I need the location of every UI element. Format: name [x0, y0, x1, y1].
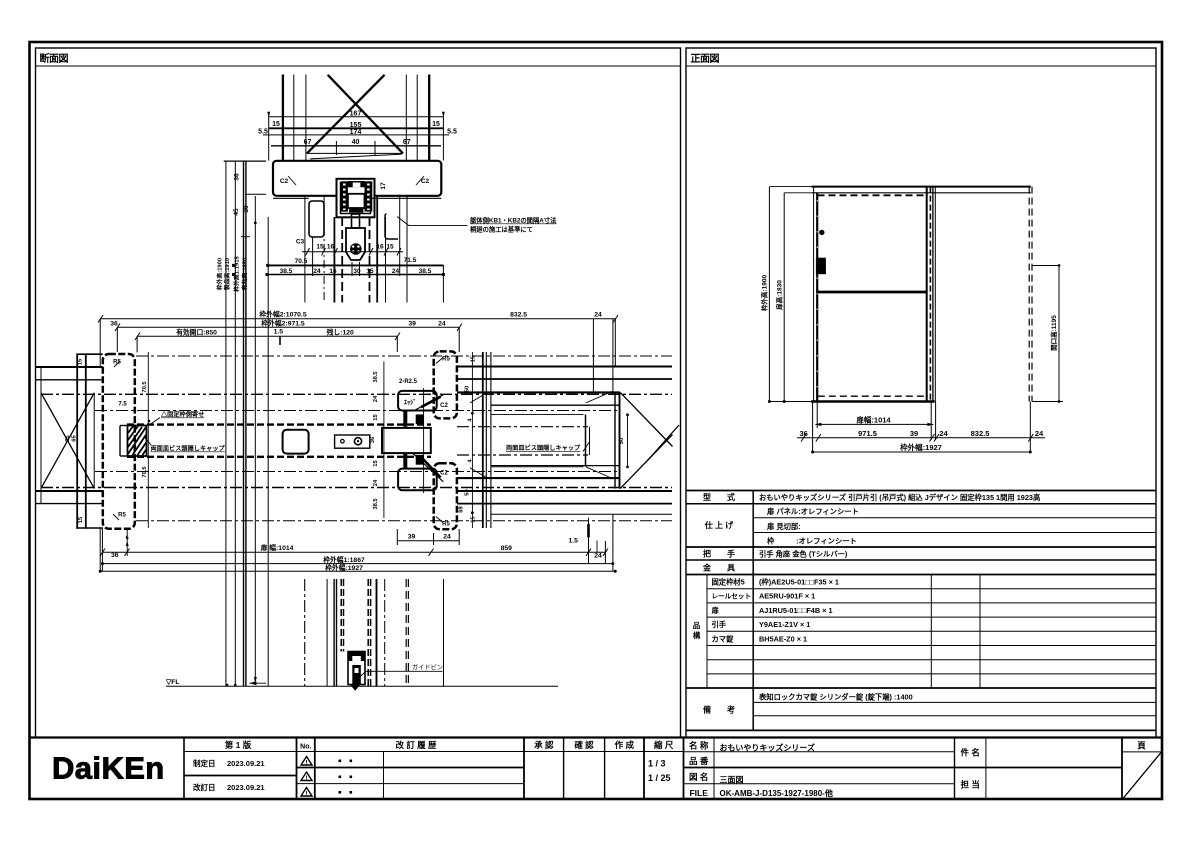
svg-text:両面皿ビス頭隠しキャップ: 両面皿ビス頭隠しキャップ — [506, 444, 581, 452]
svg-text:36: 36 — [110, 320, 118, 327]
door edge stile — [382, 428, 431, 453]
latch post lower — [434, 463, 457, 529]
svg-text:39: 39 — [408, 320, 416, 327]
jamb pocket hatch — [128, 426, 147, 457]
svg-text:AJ1RU5-01□□F4B × 1: AJ1RU5-01□□F4B × 1 — [759, 606, 833, 615]
svg-text:改 訂 履 歴: 改 訂 履 歴 — [395, 740, 437, 750]
svg-text:30: 30 — [353, 268, 361, 275]
svg-text:確 認: 確 認 — [573, 740, 594, 750]
svg-text:174: 174 — [350, 129, 362, 136]
svg-text:15: 15 — [373, 460, 379, 467]
svg-text:36: 36 — [370, 436, 376, 443]
rail slash marks — [470, 392, 487, 403]
svg-text:開口高:1195: 開口高:1195 — [1049, 315, 1058, 351]
svg-text:16: 16 — [329, 268, 337, 275]
left panel frame — [36, 48, 681, 738]
svg-text:ガイドピン: ガイドピン — [412, 664, 443, 672]
door bottom line — [811, 400, 935, 402]
door leaf bottom edge — [127, 456, 431, 458]
pocket rail lower — [457, 477, 620, 479]
svg-text:67: 67 — [403, 139, 411, 146]
kama hook upper bar — [403, 411, 407, 427]
hidden door end — [585, 415, 587, 467]
right panel frame — [686, 48, 1156, 738]
svg-text:15: 15 — [316, 244, 324, 251]
svg-text:品: 品 — [693, 621, 701, 630]
svg-text:扉 パネル:オレフィンシート: 扉 パネル:オレフィンシート — [767, 507, 859, 516]
jamb pocket inner lines — [120, 425, 128, 427]
svg-text:16: 16 — [327, 244, 335, 251]
svg-text:△固定枠側寄せ: △固定枠側寄せ — [160, 411, 204, 419]
bottom line extension to dims — [769, 401, 811, 403]
hanger roller ladder right — [365, 181, 373, 211]
brace chord — [307, 152, 403, 154]
svg-text:39: 39 — [910, 429, 918, 438]
svg-text:枠外高:1900: 枠外高:1900 — [216, 258, 224, 290]
door left stile thick line — [816, 193, 818, 402]
svg-text:15: 15 — [471, 355, 477, 362]
svg-text:おもいやりキッズシリーズ: おもいやりキッズシリーズ — [720, 743, 815, 753]
svg-text:24: 24 — [392, 268, 400, 275]
left stud pair — [76, 354, 78, 529]
svg-text:5.5: 5.5 — [447, 129, 457, 136]
bottom extension lines — [812, 402, 814, 453]
dim line D 1014 — [102, 551, 605, 553]
svg-text:担 当: 担 当 — [961, 780, 980, 790]
front view dimension texts — [760, 275, 1059, 452]
svg-text:24: 24 — [443, 534, 451, 541]
svg-text:15: 15 — [386, 244, 394, 251]
svg-text:24: 24 — [373, 479, 379, 486]
title block top line — [30, 736, 1163, 738]
left X brace — [41, 393, 94, 489]
svg-text:36: 36 — [111, 552, 119, 559]
pin base mark — [350, 685, 361, 691]
svg-text:70.5: 70.5 — [142, 466, 148, 478]
warning triangles — [301, 757, 312, 797]
bolt shaft — [352, 214, 360, 228]
kama hook housing lower — [398, 469, 437, 491]
dim line 174 — [263, 134, 449, 136]
annotation texts plan — [151, 399, 582, 453]
frame post line — [932, 187, 934, 402]
svg-text:38.5: 38.5 — [280, 268, 293, 275]
hanger roller ladder left — [341, 181, 348, 211]
svg-text:頁: 頁 — [1137, 741, 1146, 751]
svg-text:1.5: 1.5 — [274, 328, 284, 335]
bottom ext verticals — [101, 528, 103, 571]
right wall lines — [457, 365, 672, 367]
svg-text:引手 角座 金色 (Tシルバー): 引手 角座 金色 (Tシルバー) — [759, 550, 848, 559]
svg-text:!: ! — [306, 775, 308, 782]
svg-text:1.5: 1.5 — [568, 538, 578, 545]
svg-text:C2: C2 — [421, 178, 430, 185]
svg-text:2023.09.21: 2023.09.21 — [227, 783, 265, 792]
left panel header line — [36, 65, 681, 67]
svg-text:70.5: 70.5 — [142, 381, 148, 393]
svg-text:50: 50 — [465, 489, 471, 495]
right X break — [620, 392, 672, 446]
svg-text:扉高:1830: 扉高:1830 — [774, 280, 783, 310]
svg-text:R5: R5 — [113, 360, 121, 366]
svg-text:扉幅:1014: 扉幅:1014 — [855, 415, 891, 425]
svg-text:38.5: 38.5 — [373, 371, 379, 383]
svg-text:両面皿ビス頭隠しキャップ: 両面皿ビス頭隠しキャップ — [151, 445, 226, 453]
left dim line 1900 — [768, 187, 770, 402]
svg-text:躯体側KB1・KB2の間隔A寸法: 躯体側KB1・KB2の間隔A寸法 — [469, 216, 557, 225]
svg-text:65: 65 — [72, 435, 78, 442]
rail lower line — [811, 192, 1031, 194]
dashdot centerline 2 — [41, 393, 672, 395]
door top rail line — [811, 186, 1031, 188]
dim line C 850 — [137, 335, 397, 337]
svg-text:枠外幅1:1867: 枠外幅1:1867 — [322, 555, 365, 564]
svg-text:構: 構 — [693, 630, 701, 640]
leader to note — [397, 217, 468, 226]
svg-text:DaiKEn: DaiKEn — [52, 750, 165, 785]
door left stile thin line — [813, 187, 815, 402]
plan R5 C2 labels — [113, 357, 450, 528]
dim 6 tick — [126, 528, 128, 556]
dim line 155 — [269, 127, 444, 129]
latch dim verticals — [383, 362, 385, 519]
svg-text:2023.09.21: 2023.09.21 — [227, 759, 265, 768]
door right stile thick — [926, 187, 928, 402]
frame post outer thin — [934, 187, 936, 402]
svg-text:C2: C2 — [440, 403, 448, 409]
svg-text:6: 6 — [126, 536, 129, 542]
svg-text:24: 24 — [373, 395, 379, 402]
svg-text:71.5: 71.5 — [404, 257, 417, 264]
svg-text:971.5: 971.5 — [858, 429, 877, 438]
dashdot centerline 5 — [41, 487, 672, 489]
svg-text:67: 67 — [304, 139, 312, 146]
dim line tobira 1014 — [815, 423, 933, 425]
svg-text:7.5: 7.5 — [118, 402, 127, 408]
svg-text:扉 幅:1014: 扉 幅:1014 — [261, 543, 294, 552]
svg-text:▽FL: ▽FL — [165, 679, 180, 686]
svg-text:C2: C2 — [440, 471, 448, 477]
svg-text:C2: C2 — [280, 178, 289, 185]
svg-text:固定枠材5: 固定枠材5 — [712, 578, 745, 587]
latch centerline — [423, 388, 425, 493]
dim line lower — [267, 274, 443, 276]
svg-text:36: 36 — [800, 429, 808, 438]
frame post dotted line — [929, 187, 931, 402]
dim line row2 — [797, 437, 1045, 439]
svg-text:38.5: 38.5 — [419, 268, 432, 275]
bracket C3 left — [309, 201, 324, 237]
dashdot centerline 3 — [95, 410, 620, 412]
head frame lower flange lines — [273, 197, 309, 199]
right dim 1195 vertical — [1058, 266, 1060, 402]
svg-text:C3: C3 — [296, 239, 305, 246]
svg-text:枠 :オレフィンシート: 枠 :オレフィンシート — [766, 536, 857, 545]
svg-text:70.5: 70.5 — [295, 258, 308, 265]
svg-text:有効高:1850: 有効高:1850 — [241, 258, 249, 290]
dim line main — [267, 264, 443, 266]
svg-text:断面図: 断面図 — [40, 52, 69, 65]
1.5 tick — [596, 541, 598, 553]
svg-text:69: 69 — [459, 506, 465, 513]
svg-text:832.5: 832.5 — [971, 429, 990, 438]
svg-text:45: 45 — [233, 208, 240, 216]
svg-text:承 認: 承 認 — [534, 740, 554, 750]
left wall lines — [36, 366, 103, 368]
svg-text:38.5: 38.5 — [373, 498, 379, 510]
door bottom hidden dashed — [818, 395, 928, 397]
svg-text:24: 24 — [1035, 429, 1044, 438]
left jamb frame — [103, 354, 135, 529]
head frame body — [273, 161, 441, 196]
svg-text:型 式: 型 式 — [703, 492, 735, 502]
svg-text:縮 尺: 縮 尺 — [654, 740, 674, 750]
insulation slant — [310, 154, 402, 159]
svg-text:15: 15 — [471, 516, 477, 523]
kama hook housing upper — [398, 391, 437, 411]
dashdot centerline 4 — [95, 471, 620, 473]
wheel housing — [346, 228, 365, 260]
C2 corner marks — [288, 176, 296, 185]
pocket rail upper — [457, 391, 620, 393]
svg-text:把 手: 把 手 — [703, 549, 735, 559]
svg-text:枠外幅2:1070.5: 枠外幅2:1070.5 — [258, 309, 306, 318]
rotated height chain labels — [216, 256, 249, 292]
latch post upper — [434, 351, 457, 418]
revision dots — [339, 760, 353, 794]
svg-text:桐廻の施工は基準にて: 桐廻の施工は基準にて — [470, 225, 533, 234]
svg-text:24: 24 — [438, 320, 446, 327]
svg-text:40: 40 — [352, 139, 360, 146]
spec table top — [686, 490, 1156, 492]
svg-text:2-R2.5: 2-R2.5 — [399, 379, 418, 385]
svg-text:15: 15 — [366, 268, 374, 275]
door leaf top edge — [127, 423, 431, 425]
svg-text:95: 95 — [65, 435, 71, 442]
mullion verticals — [471, 352, 473, 528]
opening dashed centerline right — [1028, 187, 1030, 402]
svg-text:15: 15 — [78, 516, 84, 523]
svg-text:BH5AE-Z0 × 1: BH5AE-Z0 × 1 — [759, 634, 807, 643]
svg-text:R5: R5 — [118, 513, 126, 519]
svg-text:AE5RU-901F × 1: AE5RU-901F × 1 — [759, 592, 815, 601]
door handle cutout — [283, 430, 309, 454]
svg-text:24: 24 — [939, 429, 948, 438]
svg-text:15: 15 — [78, 358, 84, 365]
svg-text:36: 36 — [234, 173, 241, 181]
svg-text:表知ロックカマ錠 シリンダー錠 (錠下端) :1400: 表知ロックカマ錠 シリンダー錠 (錠下端) :1400 — [758, 692, 913, 701]
height dim long verticals — [225, 161, 227, 687]
svg-text:50: 50 — [465, 386, 471, 392]
kama hook lower bar — [403, 453, 407, 469]
svg-text:FILE: FILE — [689, 788, 708, 798]
page diagonal — [1123, 753, 1161, 799]
annotation leaders — [150, 418, 160, 425]
dim line E 1867 — [102, 563, 612, 565]
svg-text:制定日: 制定日 — [193, 758, 216, 768]
dim line B 971.5 — [117, 326, 459, 328]
dim A/B/C extension verticals — [99, 319, 101, 367]
door left stile dot pattern — [816, 200, 818, 398]
svg-text:(枠)AE2U5-01□□F35 × 1: (枠)AE2U5-01□□F35 × 1 — [759, 578, 839, 587]
plan labels rotated left — [65, 355, 625, 523]
svg-text:17: 17 — [380, 182, 387, 190]
right break verticals — [614, 392, 616, 488]
dim line 167 — [269, 116, 444, 118]
svg-text:金 具: 金 具 — [702, 563, 735, 573]
svg-text:16: 16 — [376, 244, 384, 251]
svg-text:レールセット: レールセット — [712, 593, 752, 601]
svg-text:R5: R5 — [442, 522, 450, 528]
svg-text:1 / 25: 1 / 25 — [648, 773, 671, 783]
hanger white slots — [343, 184, 346, 211]
guide pin leader — [365, 670, 443, 672]
hanger bottom dark — [349, 208, 363, 213]
svg-text:!: ! — [306, 790, 308, 797]
ticks 40 — [335, 141, 337, 155]
svg-text:!: ! — [306, 759, 308, 766]
wheel circle — [350, 243, 362, 255]
left dim line 1830 — [783, 193, 785, 402]
svg-text:枠外幅2:971.5: 枠外幅2:971.5 — [260, 318, 305, 327]
svg-text:39: 39 — [408, 534, 416, 541]
svg-text:枠外幅:1927: 枠外幅:1927 — [899, 442, 942, 452]
svg-text:R5: R5 — [442, 357, 450, 363]
right name rows — [684, 767, 1123, 769]
dim 70.5 vertical — [147, 352, 149, 528]
dim extension verticals — [268, 113, 270, 161]
svg-text:仕 上 げ: 仕 上 げ — [704, 520, 734, 530]
FL arrow — [249, 682, 266, 684]
dashdot centerline 1 — [136, 355, 672, 357]
svg-text:カマ錠: カマ錠 — [712, 634, 735, 643]
svg-text:作 成: 作 成 — [615, 740, 635, 750]
svg-text:扉 見切部:: 扉 見切部: — [767, 522, 801, 531]
dim 50 right — [627, 415, 629, 467]
svg-text:枠外高:1900: 枠外高:1900 — [760, 275, 769, 312]
left wall vertical — [40, 367, 42, 504]
svg-text:5.5: 5.5 — [258, 129, 268, 136]
tail verticals — [304, 579, 306, 686]
spec col lines — [752, 491, 754, 731]
svg-text:24: 24 — [594, 311, 602, 318]
verticals below head frame — [304, 196, 306, 303]
dim line F 1927 — [100, 570, 615, 572]
right panel header line — [686, 65, 1156, 67]
svg-text:Y9AE1-Z1V × 1: Y9AE1-Z1V × 1 — [759, 620, 810, 629]
dim line A 1070.5 — [100, 318, 615, 320]
svg-text:1 / 3: 1 / 3 — [648, 759, 666, 769]
svg-text:おもいやりキッズシリーズ 引戸片引 (吊戸式) 組込 J: おもいやりキッズシリーズ 引戸片引 (吊戸式) 組込 Jデザイン 固定枠135 … — [759, 493, 1040, 502]
svg-text:15: 15 — [272, 121, 280, 128]
dashdot centerline 6 — [136, 520, 672, 522]
dim line 15/16 — [302, 251, 403, 253]
bottom mini dim 39/24 — [397, 540, 459, 542]
note text kb1 kb2 — [469, 216, 557, 234]
knob dot — [819, 230, 824, 235]
top X brace — [328, 75, 403, 154]
svg-text:No.: No. — [300, 744, 311, 751]
hidden door dashed in pocket — [457, 426, 588, 428]
dim line 1927 — [813, 451, 1031, 453]
plan dim texts — [110, 309, 602, 572]
svg-text:名 称: 名 称 — [689, 741, 709, 751]
svg-text:品 番: 品 番 — [689, 756, 709, 766]
svg-text:残し:120: 残し:120 — [327, 327, 354, 336]
svg-text:832.5: 832.5 — [510, 311, 527, 318]
svg-text:改訂日: 改訂日 — [193, 782, 216, 792]
title block column lines — [183, 738, 185, 800]
svg-text:製品高:1910: 製品高:1910 — [223, 258, 231, 290]
svg-text:50: 50 — [619, 438, 625, 444]
svg-text:15: 15 — [373, 414, 379, 421]
door top hidden dashed edge — [818, 194, 925, 196]
svg-text:167: 167 — [350, 111, 362, 118]
title block row lines: header bottom — [184, 751, 315, 753]
hanger center block — [348, 194, 365, 208]
svg-text:件 名: 件 名 — [961, 748, 980, 758]
svg-text:有効開口:850: 有効開口:850 — [176, 327, 217, 336]
spec row lines — [686, 503, 1156, 505]
lock case — [816, 258, 826, 275]
door mid rail — [817, 291, 927, 294]
wall stud verticals top — [282, 75, 284, 161]
svg-text:24: 24 — [594, 553, 602, 560]
hanger housing outer — [337, 179, 375, 218]
FL line — [166, 685, 558, 687]
svg-text:枠外幅:1927: 枠外幅:1927 — [324, 563, 363, 572]
svg-text:正面図: 正面図 — [691, 53, 720, 65]
dim line 40/67 — [271, 145, 441, 147]
bracket right hook — [385, 214, 398, 239]
svg-text:24: 24 — [313, 268, 321, 275]
svg-text:ｴｯｼﾞ: ｴｯｼﾞ — [404, 399, 416, 407]
svg-text:備 考: 備 考 — [703, 705, 735, 715]
seitei/kaitei separator — [184, 775, 297, 777]
svg-text:OK-AMB-J-D135-1927-1980-他: OK-AMB-J-D135-1927-1980-他 — [720, 788, 833, 798]
hanger top bar — [348, 181, 365, 187]
svg-text:15: 15 — [432, 121, 440, 128]
svg-text:扉: 扉 — [712, 606, 719, 615]
door lock plate — [335, 435, 370, 448]
svg-text:三面図: 三面図 — [720, 776, 744, 785]
svg-text:859: 859 — [501, 545, 513, 552]
svg-text:第 1 版: 第 1 版 — [225, 740, 252, 750]
svg-text:引手: 引手 — [712, 620, 727, 629]
svg-text:図 名: 図 名 — [689, 772, 708, 782]
guide pin — [348, 652, 365, 685]
revision row lines — [297, 767, 525, 769]
